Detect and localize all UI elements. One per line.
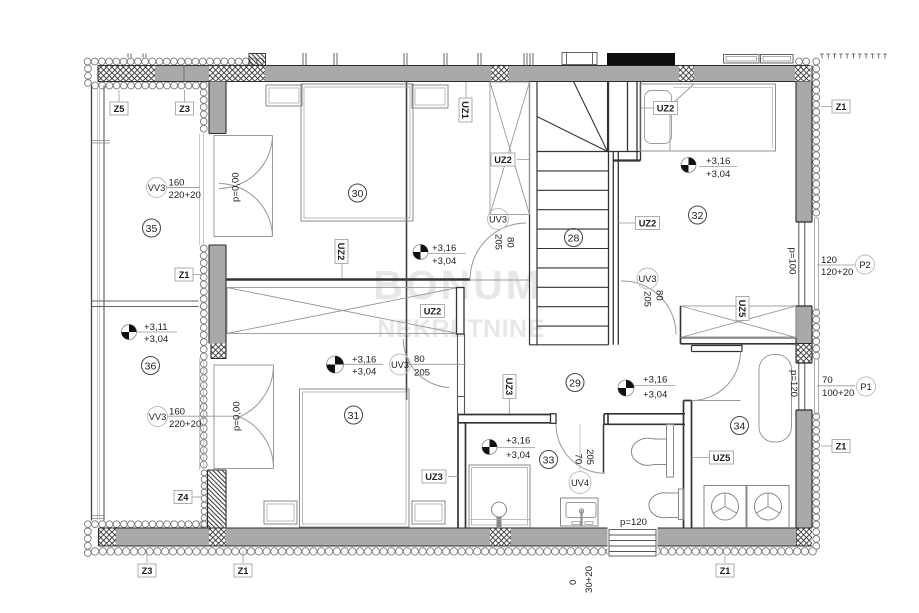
svg-text:160: 160 <box>169 178 185 189</box>
svg-text:35: 35 <box>146 223 158 235</box>
svg-text:32: 32 <box>692 210 704 222</box>
svg-text:28: 28 <box>568 233 580 245</box>
top wall gray UZ1 section <box>265 66 491 82</box>
svg-text:31: 31 <box>348 410 360 422</box>
UZ2 rotated wardrobe <box>335 240 348 264</box>
svg-text:220+20: 220+20 <box>169 419 201 430</box>
svg-text:Z3: Z3 <box>142 566 153 576</box>
svg-text:34: 34 <box>734 421 746 433</box>
black vent rect above wall <box>607 53 675 66</box>
UZ2 closet <box>491 153 515 166</box>
door room31/hall <box>403 339 449 388</box>
level markers <box>122 156 738 461</box>
wall room31/hall thin <box>458 334 465 415</box>
Z1 bottom right <box>716 564 734 577</box>
shower room33 <box>469 465 530 528</box>
boxed wall labels <box>110 82 850 577</box>
property line T-marks top right <box>820 54 887 59</box>
svg-text:UZ1: UZ1 <box>460 101 470 119</box>
wall UZ2 room30 south <box>226 278 470 281</box>
svg-text:80: 80 <box>414 354 425 365</box>
top wall hatched block left <box>98 66 155 82</box>
radiator room34 <box>759 355 792 443</box>
staircase 28 <box>530 82 641 345</box>
Z1 right top <box>832 100 850 113</box>
Z3 bottom <box>138 564 156 577</box>
top wall insulation row <box>84 58 264 65</box>
stairwell left wall <box>530 82 538 346</box>
Z3 top <box>176 102 194 115</box>
Z4 <box>174 491 192 504</box>
wc divider screen <box>603 424 605 472</box>
svg-text:30+20: 30+20 <box>584 566 595 593</box>
svg-text:205: 205 <box>642 291 653 307</box>
svg-text:+3,04: +3,04 <box>432 256 457 267</box>
UV3 door label room32 <box>637 268 665 307</box>
svg-text:UV3: UV3 <box>638 274 656 284</box>
Z5 <box>110 102 128 115</box>
top wall hatch block <box>679 66 694 82</box>
svg-text:Z1: Z1 <box>836 442 847 452</box>
door UV4 bathroom <box>556 424 605 473</box>
window P2 labels <box>787 248 875 279</box>
svg-text:70: 70 <box>822 375 833 386</box>
nightstand room30 right <box>412 85 448 108</box>
svg-text:+3,04: +3,04 <box>144 334 169 345</box>
svg-text:+3,16: +3,16 <box>643 375 667 386</box>
svg-text:p=120: p=120 <box>620 517 647 528</box>
VV3 window label room35 <box>147 178 201 202</box>
washing machine 2 <box>747 486 789 528</box>
svg-text:P2: P2 <box>859 260 870 270</box>
stair wall connector <box>613 159 640 161</box>
winder landing line <box>537 151 641 153</box>
wall UZ3 rooms30/31 east <box>406 82 408 401</box>
Z1 bottom left <box>234 564 252 577</box>
svg-text:VV3: VV3 <box>148 183 166 193</box>
left interior wall (terrace side) <box>200 82 226 529</box>
terrace-side insulation under top wall <box>92 82 207 89</box>
chimney diagonal-hatch block above wall <box>249 54 266 66</box>
svg-text:Z5: Z5 <box>114 104 125 114</box>
svg-text:+3,11: +3,11 <box>144 322 168 333</box>
stairwell winder right walls <box>628 82 641 161</box>
svg-text:80: 80 <box>505 237 516 248</box>
svg-text:P1: P1 <box>860 382 871 392</box>
UV3 door label room31 <box>390 354 467 379</box>
window P1 <box>796 359 819 414</box>
level marker room36 <box>122 325 137 340</box>
tick marks above top wall <box>128 53 533 66</box>
svg-text:UZ2: UZ2 <box>336 243 346 261</box>
top-left corner insulation <box>85 65 92 86</box>
svg-text:+3,16: +3,16 <box>432 243 456 254</box>
svg-text:+3,04: +3,04 <box>352 367 377 378</box>
UZ3 room31 <box>422 470 446 483</box>
level marker hall29 <box>618 380 634 396</box>
UZ3 rotated hall <box>503 375 516 399</box>
level marker room31 <box>327 356 344 373</box>
entry door steps bottom <box>608 529 658 559</box>
svg-text:UZ2: UZ2 <box>657 104 675 114</box>
door34 threshold <box>692 400 741 402</box>
svg-text:p=120: p=120 <box>788 370 799 397</box>
svg-text:80: 80 <box>654 290 665 301</box>
svg-text:205: 205 <box>493 234 504 250</box>
treads <box>537 171 609 326</box>
small terrace detail lines <box>92 141 111 519</box>
top wall gray far right <box>694 66 795 82</box>
terrace divider 35/36 <box>92 301 199 307</box>
svg-text:UV4: UV4 <box>571 478 589 488</box>
UZ2 room32 top <box>654 102 678 115</box>
top wall block divider <box>183 66 185 82</box>
svg-text:100+20: 100+20 <box>822 388 854 399</box>
svg-text:UZ3: UZ3 <box>425 472 443 482</box>
UV3 door label corridor <box>488 209 516 251</box>
window frames above wall right <box>724 55 794 64</box>
svg-text:220+20: 220+20 <box>169 190 201 201</box>
Z1 right bottom <box>832 440 850 453</box>
toilet 1 <box>631 425 673 478</box>
top wall hatch block mid <box>491 66 509 82</box>
hall long wardrobe <box>227 288 458 334</box>
svg-text:p=0,00: p=0,00 <box>231 172 242 202</box>
svg-text:Z4: Z4 <box>178 493 190 503</box>
washing machine 1 <box>704 486 746 528</box>
right exterior wall <box>796 58 820 549</box>
svg-text:+3,16: +3,16 <box>352 355 376 366</box>
french door VV3 room30 <box>200 134 273 246</box>
svg-text:29: 29 <box>569 378 581 390</box>
UZ5 room34 <box>710 451 734 464</box>
wardrobe right cap pier <box>457 288 465 335</box>
exterior walls <box>84 58 810 89</box>
svg-text:+3,04: +3,04 <box>643 390 668 401</box>
svg-text:UV3: UV3 <box>489 215 507 225</box>
room33 top wall <box>458 415 551 423</box>
top wall edge lines <box>98 66 811 82</box>
french door VV3 room31 <box>200 359 274 471</box>
svg-text:UZ3: UZ3 <box>504 378 514 396</box>
toilet 2 <box>649 489 684 520</box>
svg-text:Z1: Z1 <box>238 566 249 576</box>
door A threshold <box>470 279 530 281</box>
svg-text:VV3: VV3 <box>149 412 167 422</box>
svg-text:p=100: p=100 <box>787 248 798 275</box>
svg-text:+3,16: +3,16 <box>506 436 530 447</box>
level marker corridor <box>413 245 428 260</box>
top wall corner hatch block <box>795 66 811 82</box>
svg-text:70: 70 <box>573 454 584 465</box>
window frame above stairs <box>562 53 597 65</box>
window P1 labels <box>788 370 876 399</box>
UZ2 room32 left <box>636 217 660 230</box>
VV3 window label room36 <box>148 407 239 430</box>
room33 left wall thick <box>458 415 466 529</box>
wall recess room34 <box>692 344 743 352</box>
svg-text:UZ2: UZ2 <box>494 155 512 165</box>
nightstand room31 right <box>412 501 445 524</box>
svg-text:Z1: Z1 <box>836 102 847 112</box>
svg-text:+3,04: +3,04 <box>706 169 731 180</box>
svg-text:UZ5: UZ5 <box>713 453 731 463</box>
UZ2 on wardrobe <box>421 305 445 318</box>
UZ1 rotated <box>459 98 472 122</box>
svg-text:36: 36 <box>145 361 157 373</box>
wardrobe UZ5 room32 <box>681 306 797 338</box>
door room32 <box>621 281 676 335</box>
top wall gray block <box>155 66 209 82</box>
bottom exterior wall <box>84 521 816 557</box>
level marker room33 <box>482 440 497 455</box>
svg-text:+3,04: +3,04 <box>506 450 531 461</box>
UV4 door label <box>569 449 595 494</box>
Z1 left <box>175 268 193 281</box>
nightstand room30 left <box>266 85 302 106</box>
nightstand room31 left <box>264 501 297 524</box>
window P2 <box>796 218 819 310</box>
svg-text:205: 205 <box>584 449 595 465</box>
svg-text:33: 33 <box>543 455 555 467</box>
room number circles <box>142 184 749 469</box>
svg-text:Z1: Z1 <box>179 270 190 280</box>
svg-text:160: 160 <box>169 407 185 418</box>
washbasin room33 <box>561 498 599 526</box>
tall closet UZ2 by stairs <box>490 82 530 215</box>
top wall gray section right <box>509 66 679 82</box>
svg-text:Z1: Z1 <box>720 566 731 576</box>
top wall hatched block 2 <box>209 66 265 82</box>
watermark <box>373 262 545 343</box>
door room34 <box>692 352 741 401</box>
svg-text:120: 120 <box>821 255 837 266</box>
wc top wall <box>604 414 685 425</box>
svg-text:30: 30 <box>352 188 364 200</box>
svg-text:205: 205 <box>414 368 430 379</box>
svg-text:120+20: 120+20 <box>821 267 853 278</box>
svg-text:p=0,00: p=0,00 <box>232 401 243 431</box>
svg-text:UZ2: UZ2 <box>424 307 442 317</box>
svg-text:+3,16: +3,16 <box>706 156 730 167</box>
terrace edge lines <box>92 86 199 521</box>
UZ5 rotated wardrobe32 <box>736 297 749 321</box>
stairwell right wall <box>609 82 619 345</box>
stair bottom edge <box>530 344 609 346</box>
svg-text:UZ2: UZ2 <box>639 219 657 229</box>
room33 top wall end cap <box>551 414 557 424</box>
bed room32 <box>640 84 776 151</box>
level marker room32 <box>681 158 696 173</box>
svg-text:Z3: Z3 <box>179 104 190 114</box>
wall under wardrobe UZ5 <box>681 338 797 344</box>
svg-text:UZ5: UZ5 <box>737 300 747 318</box>
winder fan lines <box>537 82 608 152</box>
svg-text:0: 0 <box>568 580 579 585</box>
door A corridor <box>470 223 526 280</box>
svg-text:UV3: UV3 <box>391 360 409 370</box>
bed room30 <box>301 84 413 221</box>
bed room31 <box>300 389 410 527</box>
leaders <box>119 82 833 563</box>
wall wc/room34 <box>684 401 692 529</box>
